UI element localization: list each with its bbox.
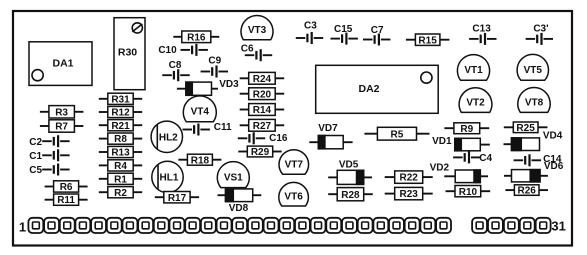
resistor R29: [238, 146, 281, 158]
capacitor C3: [296, 20, 323, 44]
svg-text:C10: C10: [158, 45, 177, 56]
capacitor C2: [29, 135, 69, 148]
svg-text:C6: C6: [241, 44, 254, 55]
pad 7: [123, 218, 138, 233]
capacitor C8: [162, 60, 189, 81]
pad 14: [232, 218, 247, 233]
capacitor C11: [183, 122, 233, 135]
svg-text:R2: R2: [114, 188, 127, 199]
svg-text:C13: C13: [472, 24, 491, 35]
capacitor C7: [363, 25, 390, 46]
diode VD7: [309, 123, 352, 149]
resistor R8: [99, 133, 142, 145]
resistor R13: [99, 146, 142, 158]
svg-text:VD7: VD7: [318, 123, 338, 134]
svg-text:VT3: VT3: [248, 25, 267, 36]
svg-text:DA1: DA1: [52, 58, 73, 70]
svg-text:C7: C7: [371, 25, 384, 36]
capacitor C4: [453, 151, 492, 163]
diode VD5: [328, 160, 372, 185]
svg-text:C4: C4: [479, 153, 492, 164]
pad 9: [154, 218, 169, 233]
resistor R18: [178, 154, 221, 166]
svg-text:VD4: VD4: [543, 131, 563, 142]
pad 29: [488, 218, 503, 233]
svg-text:R20: R20: [253, 89, 272, 100]
svg-text:R4: R4: [114, 161, 127, 172]
svg-text:C8: C8: [169, 60, 182, 71]
pad 3: [60, 218, 75, 233]
pad 17: [279, 218, 294, 233]
pad 15: [248, 218, 263, 233]
resistor R25: [504, 122, 548, 134]
pad 25: [405, 218, 420, 233]
capacitor C14: [514, 154, 562, 166]
pin label 31: [551, 218, 565, 233]
svg-text:VS1: VS1: [224, 172, 243, 183]
pad 16: [264, 218, 279, 233]
resistor R31: [99, 93, 142, 105]
svg-text:HL1: HL1: [160, 173, 179, 184]
pad 13: [217, 218, 232, 233]
resistor R15: [406, 34, 450, 46]
svg-text:R12: R12: [111, 108, 130, 119]
svg-text:C16: C16: [269, 133, 288, 144]
resistor R17: [155, 192, 199, 204]
pad 24: [389, 218, 404, 233]
resistor R5: [364, 127, 429, 140]
transistor VT6: [279, 182, 309, 206]
svg-text:R8: R8: [114, 134, 127, 145]
pad 18: [295, 218, 310, 233]
svg-text:VD6: VD6: [544, 161, 564, 172]
pad 19: [311, 218, 326, 233]
svg-text:C1: C1: [29, 151, 42, 162]
diode VD1: [432, 136, 490, 151]
resistor R14: [240, 104, 285, 117]
svg-text:R24: R24: [253, 74, 272, 85]
svg-text:VD2: VD2: [430, 163, 450, 174]
pad 21: [342, 218, 357, 233]
resistor R11: [45, 194, 88, 206]
pad 27: [436, 218, 451, 233]
resistor R16: [173, 31, 219, 43]
svg-text:R30: R30: [118, 46, 137, 58]
svg-text:VT4: VT4: [191, 107, 210, 118]
transistor VT1: [457, 55, 489, 81]
svg-text:VD8: VD8: [229, 203, 249, 214]
diode VD4: [504, 131, 563, 151]
svg-text:R14: R14: [253, 105, 272, 116]
svg-text:R10: R10: [459, 187, 478, 198]
svg-text:R27: R27: [253, 121, 272, 132]
pad 12: [201, 218, 216, 233]
svg-text:R11: R11: [57, 195, 75, 206]
capacitor C5: [29, 164, 69, 177]
svg-text:VD1: VD1: [432, 136, 452, 147]
resistor R7: [40, 120, 84, 133]
svg-text:R26: R26: [518, 186, 537, 197]
pad 30: [504, 218, 519, 233]
svg-text:31: 31: [551, 218, 565, 233]
resistor R20: [240, 88, 285, 101]
pad 31: [520, 218, 535, 233]
resistor R22: [385, 171, 433, 184]
svg-text:C3': C3': [533, 23, 548, 34]
pad 26: [420, 218, 435, 233]
svg-text:R21: R21: [111, 121, 130, 132]
svg-text:R6: R6: [60, 182, 73, 193]
svg-text:C9: C9: [208, 55, 221, 66]
transistor VT4: [183, 96, 216, 122]
svg-text:R7: R7: [55, 122, 68, 133]
pin label 1: [19, 219, 26, 234]
resistor R3: [40, 106, 84, 119]
transistor VT8: [518, 88, 550, 113]
capacitor C9: [201, 55, 228, 77]
capacitor C16: [238, 132, 288, 144]
svg-text:VT8: VT8: [525, 98, 544, 109]
svg-text:R15: R15: [418, 35, 437, 46]
pad 32: [536, 218, 551, 233]
pad 10: [170, 218, 185, 233]
capacitor C6: [241, 44, 272, 62]
pad 20: [326, 218, 341, 233]
LED HL1: [152, 161, 183, 192]
svg-text:C15: C15: [334, 24, 353, 35]
svg-text:VT2: VT2: [466, 98, 485, 109]
svg-text:R1: R1: [114, 174, 127, 185]
svg-text:R28: R28: [341, 190, 360, 201]
IC DA2: [316, 65, 439, 113]
resistor R2: [99, 187, 142, 199]
pad 28: [472, 218, 487, 233]
pad 22: [358, 218, 373, 233]
svg-text:1: 1: [19, 219, 26, 234]
potentiometer R30: [114, 18, 145, 90]
pad 6: [107, 218, 122, 233]
resistor R28: [328, 188, 373, 201]
resistor R12: [99, 106, 142, 118]
pad 5: [91, 218, 106, 233]
svg-text:R29: R29: [251, 147, 270, 158]
svg-text:R17: R17: [168, 193, 187, 204]
LED HL2: [151, 121, 182, 152]
svg-text:R3: R3: [55, 107, 68, 118]
pad 2: [44, 218, 59, 233]
svg-text:VT6: VT6: [284, 192, 303, 203]
capacitor C15: [331, 24, 358, 45]
diode VD2: [430, 163, 488, 183]
transistor VT7: [279, 150, 309, 175]
svg-text:R13: R13: [111, 148, 130, 159]
transistor VT5: [517, 54, 548, 80]
svg-text:VD3: VD3: [219, 79, 239, 90]
svg-text:R25: R25: [516, 123, 535, 134]
transistor VT3: [241, 16, 273, 40]
resistor R6: [45, 181, 88, 193]
IC DA1: [29, 42, 92, 86]
svg-text:R16: R16: [187, 32, 206, 43]
pad 11: [185, 218, 200, 233]
svg-text:R31: R31: [111, 94, 130, 105]
resistor R23: [385, 187, 433, 200]
svg-text:DA2: DA2: [358, 83, 379, 95]
resistor R27: [240, 119, 285, 131]
svg-text:VT1: VT1: [464, 65, 483, 76]
svg-text:C11: C11: [214, 122, 232, 133]
diode VD3: [177, 79, 239, 95]
resistor R26: [505, 185, 548, 197]
svg-text:R5: R5: [391, 129, 404, 140]
pad 23: [373, 218, 388, 233]
svg-text:VD5: VD5: [339, 160, 359, 171]
diode VD6: [504, 161, 564, 182]
resistor R21: [99, 120, 142, 132]
transistor VT2: [459, 88, 492, 113]
svg-text:VT5: VT5: [524, 65, 543, 76]
resistor R10: [446, 186, 491, 198]
svg-text:C3: C3: [304, 20, 317, 31]
svg-text:R18: R18: [191, 155, 210, 166]
capacitor C13: [469, 24, 496, 45]
resistor R24: [240, 72, 285, 85]
svg-text:R23: R23: [400, 189, 419, 200]
pad 8: [138, 218, 153, 233]
svg-text:R22: R22: [400, 173, 419, 184]
resistor R9: [444, 123, 489, 135]
capacitor C1: [29, 149, 69, 162]
thyristor VS1: [217, 162, 249, 188]
pad 1: [28, 218, 43, 233]
svg-text:HL2: HL2: [159, 132, 178, 143]
pad 4: [75, 218, 90, 233]
capacitor C10: [158, 44, 208, 56]
diode VD8: [218, 189, 262, 214]
svg-text:C5: C5: [29, 165, 42, 176]
svg-text:C2: C2: [29, 137, 42, 148]
svg-text:VT7: VT7: [285, 160, 304, 171]
svg-text:R9: R9: [460, 124, 473, 135]
resistor R1: [99, 173, 142, 185]
resistor R4: [99, 160, 142, 172]
capacitor C3': [526, 23, 553, 45]
